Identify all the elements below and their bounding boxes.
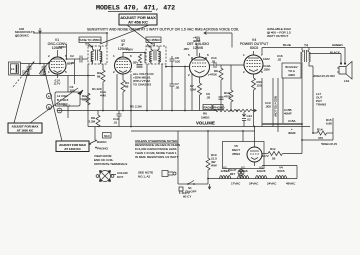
antenna loop L1 bbox=[9, 62, 21, 75]
svg-text:TUNE TO 455KC: TUNE TO 455KC bbox=[78, 38, 102, 42]
svg-text:A: A bbox=[48, 95, 50, 99]
svg-text:12AV6: 12AV6 bbox=[257, 169, 266, 173]
svg-text:60 CY: 60 CY bbox=[183, 195, 191, 199]
capacitor C16 bbox=[277, 54, 283, 62]
capacitor C6 bbox=[206, 92, 224, 100]
resistor R12 bbox=[262, 147, 302, 161]
svg-text:105V: 105V bbox=[59, 45, 66, 49]
switch radio phono bbox=[203, 105, 225, 110]
svg-text:TRANS: TRANS bbox=[316, 103, 326, 107]
volume control R6 bbox=[196, 109, 256, 125]
adjust box 1400 bbox=[56, 141, 89, 152]
gang coupling dashed line bbox=[12, 63, 33, 88]
svg-text:C2: C2 bbox=[70, 54, 74, 58]
label S1C bbox=[103, 133, 112, 139]
wire T2 left drop bbox=[87, 64, 89, 127]
speaker LS1 bbox=[337, 62, 352, 84]
svg-text:PHONO: PHONO bbox=[97, 147, 109, 151]
resistor R8 bbox=[89, 111, 101, 128]
label R5 bbox=[130, 105, 142, 109]
resistor R13 surge bbox=[206, 130, 217, 184]
capacitor C3 bbox=[68, 76, 75, 119]
svg-text:TO CHASSIS: TO CHASSIS bbox=[133, 83, 151, 87]
svg-text:1MEG: 1MEG bbox=[201, 116, 210, 120]
svg-text:AT 1620 KC: AT 1620 KC bbox=[17, 129, 34, 133]
tube V1 bbox=[48, 50, 67, 78]
svg-text:SENSITIVITY AND NOISE GAINS AT: SENSITIVITY AND NOISE GAINS AT 1 WATT OU… bbox=[87, 28, 239, 32]
label 50C5 voltages bbox=[263, 57, 271, 72]
svg-text:470K: 470K bbox=[224, 95, 231, 99]
svg-text:110V: 110V bbox=[263, 57, 270, 61]
heater V2 bbox=[238, 166, 249, 179]
node dots on buses bbox=[39, 32, 232, 127]
wire V5 box top left bbox=[242, 131, 244, 142]
svg-text:4-40: 4-40 bbox=[100, 94, 106, 98]
callout box tune to 455kc bbox=[78, 37, 102, 43]
svg-text:R5: R5 bbox=[130, 105, 134, 109]
ground arrow B- bbox=[208, 184, 211, 189]
svg-text:RADIO: RADIO bbox=[204, 106, 214, 110]
label V2 bbox=[118, 39, 129, 51]
labels heater voltages bbox=[231, 182, 296, 186]
svg-text:35W4: 35W4 bbox=[232, 152, 240, 156]
svg-text:GREEN: GREEN bbox=[332, 43, 343, 47]
capacitor C13 bbox=[113, 111, 122, 127]
capacitor C5 screen bbox=[133, 54, 143, 67]
svg-text:49VAC: 49VAC bbox=[286, 182, 296, 186]
svg-text:.02: .02 bbox=[277, 58, 282, 62]
svg-text:WW: WW bbox=[211, 164, 217, 168]
svg-text:470: 470 bbox=[318, 136, 323, 140]
output transformer T4 bbox=[301, 48, 313, 67]
adjust box 1620 bbox=[8, 123, 42, 133]
svg-text:150: 150 bbox=[257, 84, 262, 88]
label 45V 400ohm bbox=[193, 36, 201, 44]
label voltages under V1 bbox=[54, 79, 61, 86]
svg-text:PHONO: PHONO bbox=[214, 106, 226, 110]
wire bottom return bbox=[302, 139, 333, 141]
svg-text:IN MMF. RESISTORS 1/2 WATT: IN MMF. RESISTORS 1/2 WATT bbox=[135, 155, 178, 159]
svg-text:24VAC: 24VAC bbox=[267, 182, 277, 186]
capacitor C7 bbox=[170, 66, 180, 111]
wire measurement line bbox=[33, 32, 107, 34]
tube V3 bbox=[188, 53, 210, 81]
wire drops under V4 bbox=[261, 78, 263, 127]
svg-text:50C5: 50C5 bbox=[277, 169, 285, 173]
svg-text:3.3M: 3.3M bbox=[89, 120, 96, 124]
label C10 bbox=[265, 101, 271, 109]
wire field coil drops bbox=[277, 78, 279, 132]
label C14 bbox=[211, 56, 217, 64]
svg-text:R14: R14 bbox=[317, 128, 323, 132]
wire T3 left drop bbox=[146, 64, 148, 111]
callout box to 455kc bbox=[146, 37, 161, 43]
wire secondary to speaker bbox=[309, 53, 341, 55]
wire filter drop bbox=[301, 64, 303, 154]
svg-text:MODELS 471,472 ONLY: MODELS 471,472 ONLY bbox=[313, 74, 335, 78]
svg-text:.05: .05 bbox=[206, 96, 211, 100]
svg-text:*MODELS 471,472: *MODELS 471,472 bbox=[321, 142, 337, 146]
resistor R4 bbox=[121, 78, 129, 111]
svg-text:NO.1, A2: NO.1, A2 bbox=[138, 175, 151, 179]
note see note bbox=[138, 171, 153, 179]
leader box1 to L2 bbox=[30, 88, 78, 123]
capacitor C4 bbox=[57, 104, 70, 113]
svg-text:6.8K: 6.8K bbox=[326, 122, 332, 126]
leader from adjust box to T2 bbox=[100, 25, 149, 44]
label V3 bbox=[187, 38, 209, 50]
wire V2 plate drop bbox=[130, 74, 132, 127]
svg-text:C15A: C15A bbox=[288, 119, 296, 123]
svg-text:OPPOSITE TERMINALS: OPPOSITE TERMINALS bbox=[94, 162, 127, 166]
title underline bbox=[108, 11, 152, 13]
svg-text:L1: L1 bbox=[11, 67, 15, 71]
wire V1 plate drop bbox=[74, 59, 76, 84]
wire V3 cathode drop bbox=[191, 74, 193, 111]
leader box2 to C1B bbox=[44, 68, 62, 141]
heater V4 bbox=[276, 166, 287, 179]
svg-text:AT 1400 KC: AT 1400 KC bbox=[64, 147, 81, 151]
svg-text:117V: 117V bbox=[262, 154, 269, 158]
capacitor C15B bbox=[284, 108, 292, 116]
svg-text:VOLUME: VOLUME bbox=[196, 121, 215, 126]
svg-text:56: 56 bbox=[272, 157, 276, 161]
resistor R7 under V3 bbox=[190, 81, 202, 111]
node arrow tick bbox=[39, 28, 42, 33]
svg-text:40MF: 40MF bbox=[288, 131, 296, 135]
note view from coil bbox=[94, 154, 127, 166]
wire drop to converter grid bbox=[39, 33, 41, 64]
svg-text:12BA6: 12BA6 bbox=[238, 169, 247, 173]
svg-text:50C5: 50C5 bbox=[250, 46, 258, 50]
wire L2 to R2 bbox=[80, 98, 88, 100]
heater V3 bbox=[256, 166, 267, 179]
wire drop to V4 grid bbox=[231, 33, 233, 48]
wire black drop bbox=[340, 54, 342, 65]
svg-text:10K: 10K bbox=[82, 98, 87, 102]
svg-text:.05: .05 bbox=[211, 60, 216, 64]
resistor R3 bbox=[97, 64, 105, 111]
IF transformer T3 bbox=[146, 44, 166, 64]
svg-text:.05: .05 bbox=[175, 86, 180, 90]
variable capacitor C1B bbox=[39, 62, 49, 77]
capacitor C2 bbox=[66, 54, 88, 65]
svg-text:.01: .01 bbox=[113, 121, 118, 125]
svg-text:12BE6: 12BE6 bbox=[220, 169, 229, 173]
resistor R11 cathode bbox=[252, 78, 263, 127]
svg-text:.1: .1 bbox=[68, 104, 71, 108]
underline note bbox=[135, 142, 178, 144]
svg-text:400Ω: 400Ω bbox=[193, 39, 201, 43]
wire T3 to V3 grid bbox=[166, 66, 190, 68]
svg-text:DOT: DOT bbox=[117, 175, 124, 179]
leader from adjust box to T3 bbox=[127, 25, 152, 44]
svg-text:55V: 55V bbox=[133, 61, 138, 65]
svg-text:68: 68 bbox=[97, 75, 101, 79]
wire V2 pin drop bbox=[116, 74, 118, 111]
svg-text:#47: #47 bbox=[230, 172, 235, 176]
variable capacitor C1A bbox=[22, 62, 34, 77]
svg-text:BLUE: BLUE bbox=[283, 43, 291, 47]
wire V2 plate to T3 bbox=[123, 48, 146, 64]
svg-text:100: 100 bbox=[175, 60, 180, 64]
wire drop to T2 bbox=[106, 33, 108, 46]
wire from 45V label bbox=[196, 43, 198, 56]
wire B- line bbox=[131, 130, 255, 132]
label V4 bbox=[240, 38, 269, 50]
heater V1 bbox=[220, 166, 231, 179]
wire ground bus bbox=[88, 126, 310, 128]
node dot tap bbox=[236, 110, 238, 112]
svg-text:MODELS 470, 471, 472: MODELS 470, 471, 472 bbox=[96, 5, 175, 12]
phono jack P1 bbox=[162, 171, 176, 177]
trimmer C4A bbox=[100, 90, 106, 98]
node dots speaker bbox=[340, 62, 342, 64]
coil end view detail bbox=[96, 170, 128, 182]
leader box1 to C1A bbox=[14, 68, 29, 123]
wire heater bus bbox=[208, 178, 297, 180]
svg-text:RED+YELLOW: RED+YELLOW bbox=[274, 96, 278, 117]
tube V2 bbox=[113, 52, 132, 78]
oscillator coil L2 bbox=[46, 90, 83, 110]
label output trans bbox=[316, 92, 326, 107]
svg-text:R12: R12 bbox=[270, 147, 276, 151]
svg-text:470K: 470K bbox=[210, 73, 217, 77]
svg-text:.005: .005 bbox=[265, 105, 271, 109]
resistor R2 bbox=[82, 93, 90, 105]
svg-text:4000: 4000 bbox=[288, 73, 295, 77]
svg-text:2.2M: 2.2M bbox=[135, 105, 142, 109]
svg-text:.02: .02 bbox=[247, 118, 252, 122]
wire V4 plate to T4 bbox=[262, 47, 345, 49]
resistor R9 bbox=[210, 65, 223, 111]
capacitor C12 wiper bbox=[242, 112, 252, 127]
IF transformer T2 bbox=[88, 44, 107, 64]
svg-text:BLACK: BLACK bbox=[330, 51, 340, 55]
resistor R15 bbox=[326, 118, 333, 140]
svg-text:40MF: 40MF bbox=[284, 112, 292, 116]
label R1 22K bbox=[92, 87, 102, 91]
svg-text:AT 456 KC: AT 456 KC bbox=[128, 20, 148, 25]
capacitor C15A bbox=[262, 119, 302, 135]
note all volts dc bbox=[133, 72, 155, 87]
wire green drop bbox=[344, 48, 346, 65]
svg-text:WATT OUTPUT: WATT OUTPUT bbox=[267, 34, 288, 38]
wire measurement line 2 bbox=[204, 32, 232, 35]
wire screen feed V1 bbox=[59, 44, 67, 60]
switch S1 on-off bbox=[185, 181, 197, 194]
capacitor C8 bbox=[170, 56, 181, 66]
svg-text:.02M: .02M bbox=[263, 68, 270, 72]
svg-text:LS1: LS1 bbox=[344, 79, 350, 83]
svg-text:68: 68 bbox=[125, 85, 129, 89]
svg-text:10M: 10M bbox=[190, 88, 196, 92]
svg-text:+90V: +90V bbox=[126, 48, 133, 52]
svg-text:T4: T4 bbox=[304, 44, 308, 48]
svg-text:@1000KC: @1000KC bbox=[15, 33, 30, 37]
svg-text:24VAC: 24VAC bbox=[249, 182, 259, 186]
power supply box V5 bbox=[223, 142, 265, 169]
wire heater return bbox=[296, 166, 298, 179]
wire output secondary drop bbox=[312, 66, 314, 133]
resistor R14 bbox=[312, 128, 333, 141]
svg-text:S1C: S1C bbox=[104, 134, 111, 138]
ac plug bbox=[178, 131, 191, 199]
wire AVC bus bbox=[57, 110, 217, 112]
radio phono switch S2 bbox=[89, 127, 109, 151]
svg-text:17VAC: 17VAC bbox=[231, 182, 241, 186]
wire T3 right drop bbox=[161, 64, 163, 111]
svg-text:117V: 117V bbox=[54, 82, 61, 86]
svg-text:.45V: .45V bbox=[183, 47, 189, 51]
wire antenna to V1 grid bbox=[21, 63, 50, 65]
tube V4 bbox=[243, 51, 263, 78]
svg-text:85V: 85V bbox=[67, 62, 72, 66]
wire V5 plate feed bbox=[254, 127, 256, 145]
unless otherwise noted bbox=[135, 139, 180, 159]
label V1 bbox=[48, 38, 68, 50]
wire tuning ground bus bbox=[21, 75, 96, 77]
wire switch to heater bbox=[196, 183, 208, 185]
tube V5 bbox=[247, 144, 262, 166]
svg-text:RADIO: RADIO bbox=[97, 140, 107, 144]
resistor R10 bbox=[224, 65, 233, 111]
capacitor C14 coupling bbox=[210, 62, 245, 68]
svg-text:12AV6: 12AV6 bbox=[193, 46, 203, 50]
pilot lamp bbox=[228, 168, 244, 179]
wire V3 grid drop bbox=[184, 67, 186, 111]
callout box ADJUST FOR MAX AT 456 KC bbox=[119, 14, 157, 25]
field coil box L7 bbox=[282, 63, 301, 78]
